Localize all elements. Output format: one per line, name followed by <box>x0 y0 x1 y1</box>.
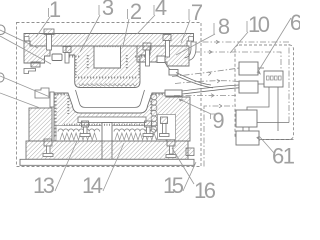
svg-text:4: 4 <box>155 0 167 20</box>
svg-text:6: 6 <box>290 10 300 35</box>
coil column in right wall <box>151 94 157 132</box>
svg-text:3: 3 <box>102 0 114 20</box>
white band springs zone <box>56 126 166 142</box>
base <box>20 141 194 165</box>
svg-text:16: 16 <box>194 178 216 200</box>
svg-text:61: 61 <box>272 144 295 169</box>
svg-text:14: 14 <box>82 173 103 198</box>
dashed border of mold drawing <box>17 23 202 167</box>
lower tub block <box>29 90 190 141</box>
svg-text:15: 15 <box>163 173 184 198</box>
svg-text:1: 1 <box>49 0 61 22</box>
bolts lower outer <box>43 115 176 158</box>
clamp bracket left <box>35 88 49 98</box>
leader lines <box>0 15 291 191</box>
svg-text:8: 8 <box>218 14 230 39</box>
control system dashed box <box>235 45 294 140</box>
upper right block <box>137 46 189 66</box>
mold insert <box>94 47 121 69</box>
serrated left wall edge <box>54 94 56 137</box>
svg-text:10: 10 <box>248 12 270 37</box>
zigzag springs <box>60 133 97 140</box>
upper left block <box>24 41 50 67</box>
serration teeth upper block <box>66 55 150 78</box>
control boxes <box>236 62 283 145</box>
top plate <box>24 34 194 47</box>
ejector plate <box>78 117 146 123</box>
rim ticks <box>54 93 67 95</box>
tiny text in controller box <box>267 76 282 80</box>
bump row springs <box>58 129 100 132</box>
fine ticks under ejector plate <box>64 124 146 126</box>
svg-text:13: 13 <box>33 173 55 198</box>
svg-text:9: 9 <box>212 108 224 133</box>
svg-text:7: 7 <box>191 0 203 25</box>
label corner ticks <box>49 5 248 119</box>
svg-text:2: 2 <box>130 0 142 24</box>
hook piece under plate end <box>24 69 36 74</box>
pipe tubes to control <box>165 42 239 94</box>
fitting on left of cavity block <box>52 54 62 61</box>
flow lines dash-dot <box>172 42 289 167</box>
flow arrows <box>208 40 222 108</box>
upper cavity block (serrated) <box>66 46 150 88</box>
bolts lower inner <box>80 121 153 137</box>
leader arrowheads <box>179 70 261 141</box>
stem <box>102 123 112 162</box>
bolts upper <box>44 29 171 66</box>
fittings right side <box>157 56 165 63</box>
control connectors <box>243 68 294 140</box>
cut-off label fragments on left edge <box>0 25 5 82</box>
